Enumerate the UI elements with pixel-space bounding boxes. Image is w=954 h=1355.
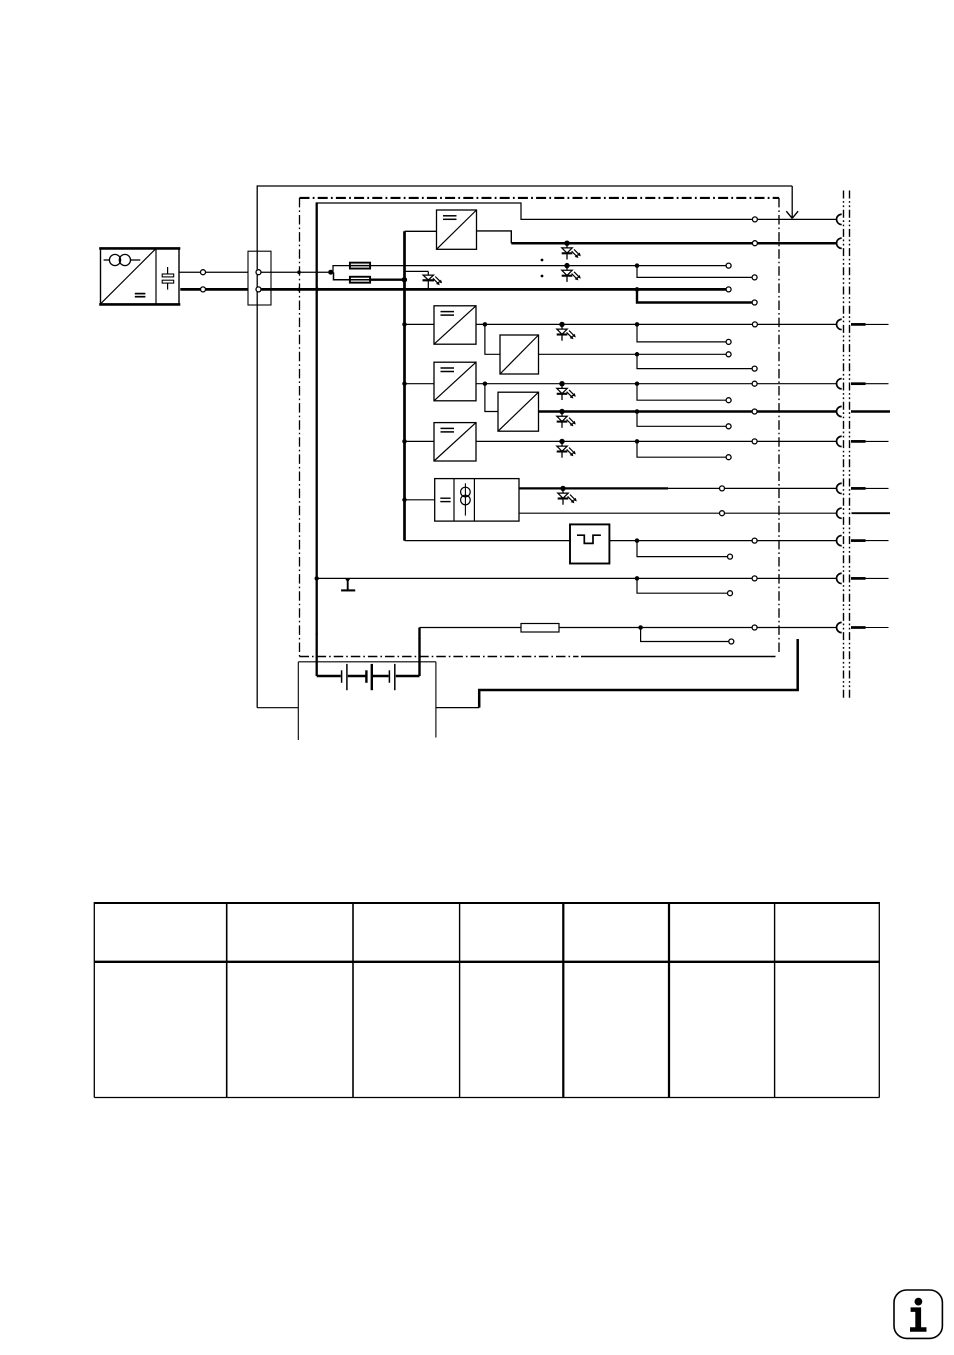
wire bus to T4 — [405, 383, 435, 385]
wire row10 branch — [637, 441, 726, 457]
node row15 branch — [638, 625, 643, 630]
connector contact pin6 — [837, 436, 842, 446]
wire row13 branch — [637, 541, 728, 557]
device enclosure dash-dot border bottom — [300, 656, 579, 658]
pin circle row6 — [752, 322, 757, 327]
pin circle row8 — [752, 381, 757, 386]
wire 0V to pin row1 — [317, 203, 837, 219]
outer PE frame wire bottom — [257, 707, 298, 709]
pin circle row13 branch end — [728, 554, 733, 559]
AC/DC power supply unit U1 — [99, 248, 180, 304]
terminal block X — [248, 251, 271, 305]
node bus tap T4 — [402, 381, 407, 386]
battery module outline — [298, 662, 436, 740]
wire row6 branch — [637, 324, 726, 342]
wire battery sense row15 — [420, 627, 837, 629]
functional earth symbol — [341, 579, 355, 591]
pin circle L+ psu — [201, 270, 206, 275]
outer PE frame wire left — [256, 185, 258, 707]
wire row8 T4 output — [476, 383, 837, 385]
cable core row10 — [851, 440, 866, 443]
cable core row12 — [852, 512, 891, 514]
pin circle row3 branch end — [752, 275, 757, 280]
node row6 branch — [635, 322, 640, 327]
cable core row8 — [851, 382, 866, 385]
data table — [94, 902, 879, 1098]
fuse F1 — [350, 263, 370, 269]
pin circle row2 — [752, 241, 757, 246]
wire PE row14 — [317, 577, 837, 579]
node L+ enclosure entry — [297, 270, 301, 274]
pin circle row10 branch end — [726, 455, 731, 460]
node L+ fuse tap — [328, 270, 333, 275]
node bus tap T2 — [402, 322, 407, 327]
wire branch to fuse F1 — [333, 266, 350, 273]
cable core row13 — [851, 539, 866, 542]
wire row14 branch — [637, 578, 728, 593]
wire fuse F2 output (bold) — [350, 279, 404, 281]
pin circle row8 branch end — [726, 398, 731, 403]
node row13 branch — [635, 538, 640, 543]
pin circle row7 end — [726, 352, 731, 357]
LED H6 — [557, 439, 576, 458]
wire row11 T7 output (part bold) — [519, 487, 668, 489]
wire +24V out row2 (bold) — [511, 242, 836, 245]
pin circle M branch end — [752, 300, 757, 305]
transformer symbol in U1 — [104, 254, 141, 265]
node M branch — [635, 287, 640, 292]
wire 0V rail vertical — [316, 202, 318, 676]
node battery sense small — [418, 637, 420, 639]
LED H7 — [558, 486, 577, 505]
node M enclosure entry — [297, 288, 301, 292]
LED H5 — [557, 409, 576, 428]
wire row15 branch — [641, 628, 729, 642]
connector contact pin4 — [837, 379, 842, 389]
resistor R1 — [521, 624, 559, 633]
device enclosure dash-dot border right — [778, 198, 780, 655]
DC/DC converter T2 — [434, 306, 476, 344]
LED H0 — [423, 275, 443, 285]
DC/DC converter T3 — [500, 335, 539, 374]
wire M branch (bold) — [637, 289, 752, 302]
wire row3 branch — [637, 266, 752, 278]
DC/DC converter T1 — [437, 210, 477, 249]
wire +24V DC bus vertical — [403, 231, 406, 540]
cable core row15 — [851, 626, 866, 629]
connector contact pin3 — [837, 319, 842, 329]
connector contact pin11 — [837, 622, 842, 632]
wire bus to T7 — [405, 499, 435, 501]
battery G1 cells wire (bold) — [317, 675, 420, 678]
connector contact pin2 — [837, 238, 842, 248]
wire branch to fuse F2 — [334, 272, 351, 280]
wire row9 branch — [637, 412, 726, 427]
LED H3 — [557, 322, 576, 341]
DC/DC converter T6 — [434, 423, 476, 461]
pulse signal module K1 — [570, 524, 609, 563]
connector contact pin7 — [837, 483, 842, 493]
wire bus to T6 — [405, 440, 435, 442]
wire M rail (bold) — [261, 288, 726, 291]
power LED H0 vertical wire — [427, 271, 429, 288]
pin circle row6 branch end — [726, 339, 731, 344]
wire L+ to fuse tap — [261, 271, 331, 273]
DC/DC converter T5 — [498, 392, 539, 431]
line filter capacitor symbol in U1 — [162, 267, 174, 290]
wire row10 T6 output — [476, 440, 837, 442]
cable core row6 — [851, 323, 866, 326]
wire row12 T7 output 2 — [519, 512, 837, 514]
pin circle M end — [726, 287, 731, 292]
device enclosure dash-dot border top — [300, 197, 780, 199]
enclosure border bottom solid segment — [581, 656, 776, 658]
LED H2 — [562, 263, 581, 282]
wire bus to power LED H0 — [405, 270, 429, 272]
node row3 branch — [635, 263, 640, 268]
wire row9 T5 output (bold) — [539, 410, 837, 413]
pin circle row9 — [752, 409, 757, 414]
wire row13 pulse output — [609, 540, 836, 542]
cable shield boundary line 2 — [849, 191, 851, 699]
pin circle row15 branch end — [729, 639, 734, 644]
device enclosure dash-dot border left — [299, 198, 301, 657]
wire bus to T2 — [405, 323, 435, 325]
cable core row14 — [851, 577, 866, 580]
node row7 branch — [635, 352, 640, 357]
pin circle row14 — [752, 576, 757, 581]
info icon — [894, 1290, 942, 1338]
connector contact pin10 — [837, 573, 842, 583]
pin circle row9 branch end — [726, 424, 731, 429]
outer PE frame wire top — [257, 185, 792, 187]
wire bus feed to T1 — [405, 230, 437, 232]
ellipsis dots between LEDs — [541, 259, 544, 262]
pin circle row3 end — [726, 263, 731, 268]
terminal contact M — [256, 287, 261, 292]
pin circle row14 branch end — [728, 591, 733, 596]
node row10 branch — [635, 439, 640, 444]
node bus tap T6 — [402, 439, 407, 444]
wire battery minus link — [436, 707, 479, 709]
cable core row9 (bold) — [851, 410, 890, 412]
pin circle row7 branch end — [752, 366, 757, 371]
connector contact pin5 — [837, 406, 842, 416]
connector contact pin8 — [837, 508, 842, 518]
DC/DC converter T4 — [434, 362, 476, 401]
wire row7 branch — [637, 354, 752, 368]
connector contact pin9 — [837, 535, 842, 545]
wire battery link step (bold) — [479, 639, 798, 708]
node row6 T3 tap — [483, 322, 488, 327]
wire row8 branch — [637, 384, 726, 401]
wire fused sense line row — [350, 265, 726, 267]
cable core row11 — [851, 487, 866, 490]
LED H1 — [562, 241, 581, 260]
node F2 to DC bus — [402, 277, 407, 282]
wire battery sense vertical (bold) — [418, 628, 420, 677]
wire row6 T2 output — [476, 323, 837, 325]
wire M from U1 (bold) — [180, 288, 248, 291]
wire bus to pulse module — [405, 540, 571, 542]
pin circle row12 — [720, 511, 725, 516]
pin circle row10 — [752, 439, 757, 444]
pin circle row1 — [752, 217, 757, 222]
pin circle row11 — [720, 486, 725, 491]
wire row6 to T3 — [485, 324, 500, 354]
node bus tap T7 — [402, 498, 407, 503]
wire T1 output to step — [477, 231, 512, 243]
LED H4 — [557, 381, 576, 400]
node row8 T5 tap — [483, 381, 488, 386]
cable shield boundary line 1 — [843, 191, 845, 699]
wire row7 T3 output — [539, 353, 727, 355]
isolated DC/DC converter T7 — [435, 479, 519, 521]
node row14 branch — [635, 576, 640, 581]
node 0V PE tap — [315, 576, 319, 580]
node M 0V tie — [315, 288, 319, 292]
node row8 branch — [635, 381, 640, 386]
fuse F2 — [350, 277, 370, 283]
node 0V small — [316, 633, 318, 635]
pin circle row13 — [752, 538, 757, 543]
arrow into pin row 1 — [786, 186, 798, 218]
connector contact pin1 — [837, 214, 842, 224]
transformer symbol in T7 — [461, 483, 471, 515]
pin circle M psu — [201, 287, 206, 292]
wire L+ from U1 — [179, 271, 248, 273]
battery G1 cell plates — [342, 664, 395, 690]
node row9 branch — [635, 409, 640, 414]
terminal contact L+ — [256, 270, 261, 275]
pin circle row15 — [752, 625, 757, 630]
wire row8 to T5 — [485, 384, 498, 412]
